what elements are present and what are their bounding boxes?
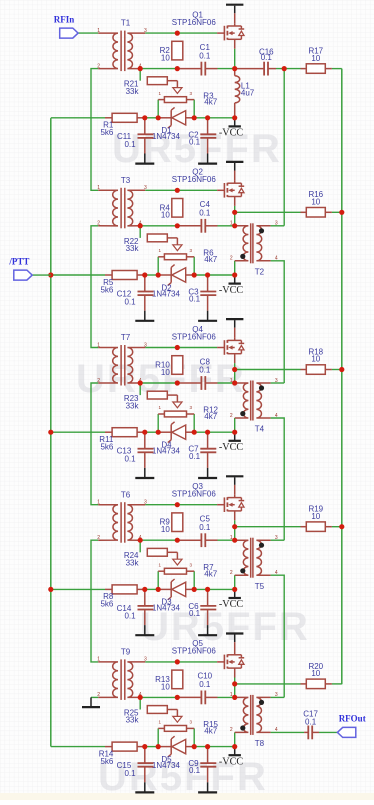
wire bbox=[332, 369, 342, 371]
label C1 0.1 bbox=[199, 43, 211, 60]
svg-text:10: 10 bbox=[311, 512, 320, 521]
svg-text:STP16NF06: STP16NF06 bbox=[172, 18, 217, 27]
label R1 5k6 bbox=[100, 121, 113, 138]
svg-text:3: 3 bbox=[144, 657, 147, 663]
pin numbers T5 bbox=[230, 535, 278, 576]
junction (-VCC node) bbox=[232, 115, 237, 120]
junction (C top) bbox=[205, 115, 210, 120]
junction (source node) bbox=[232, 681, 237, 686]
wire bbox=[140, 539, 177, 541]
resistor R22 bbox=[147, 234, 167, 242]
wire (R leads) bbox=[301, 526, 332, 528]
svg-text:4k7: 4k7 bbox=[204, 727, 217, 736]
svg-text:5k6: 5k6 bbox=[100, 285, 113, 294]
transformer T5 bbox=[235, 538, 271, 578]
svg-text:3: 3 bbox=[275, 378, 278, 384]
svg-text:0.1: 0.1 bbox=[305, 718, 317, 727]
svg-text:10: 10 bbox=[161, 54, 170, 63]
svg-text:3: 3 bbox=[144, 28, 147, 34]
label Q2 STP16NF06 bbox=[172, 168, 217, 185]
wire (resistor leads) bbox=[105, 588, 145, 590]
svg-text:-VCC: -VCC bbox=[219, 599, 244, 610]
wire bbox=[145, 504, 217, 506]
capacitor C14 bbox=[138, 606, 154, 610]
wire bbox=[139, 383, 141, 395]
wire (R leads) bbox=[301, 211, 332, 213]
resistor R4 bbox=[172, 199, 183, 218]
wire bbox=[194, 431, 235, 433]
pin numbers R12 bbox=[159, 405, 193, 410]
wire (resistor leads) bbox=[105, 431, 145, 433]
svg-text:0.1: 0.1 bbox=[199, 209, 211, 218]
wire bbox=[145, 588, 158, 590]
svg-text:4u7: 4u7 bbox=[241, 88, 255, 97]
resistor R23 bbox=[147, 391, 167, 399]
junction (zener right) bbox=[192, 587, 197, 592]
wire (cap leads) bbox=[145, 589, 208, 606]
wire bbox=[145, 431, 158, 433]
label R16 10 bbox=[308, 190, 323, 206]
polarity dots T4 bbox=[240, 385, 264, 416]
label T9 bbox=[121, 648, 131, 657]
wire bbox=[140, 68, 177, 70]
wire bbox=[234, 363, 236, 369]
wire (drain lead) bbox=[234, 485, 236, 495]
wire (R leads) bbox=[301, 683, 332, 685]
wire bbox=[235, 683, 301, 685]
pin numbers T3 bbox=[97, 185, 147, 227]
capacitor C8 bbox=[201, 376, 205, 390]
wire (L1 leads) bbox=[234, 69, 236, 118]
junction (C16/T2 feed) bbox=[282, 66, 287, 71]
junction (C top) bbox=[142, 744, 147, 749]
ground (T9 pin 2) bbox=[82, 697, 100, 707]
wire bbox=[193, 257, 195, 275]
junction (zener left) bbox=[156, 430, 161, 435]
transistor Q4 bbox=[217, 338, 244, 364]
label RFOut bbox=[339, 714, 366, 724]
svg-text:4k7: 4k7 bbox=[204, 255, 217, 264]
ground bbox=[135, 138, 154, 164]
wire (C lead) bbox=[177, 696, 217, 698]
label T6 bbox=[121, 490, 131, 499]
wire bbox=[139, 69, 141, 81]
svg-text:STP16NF06: STP16NF06 bbox=[172, 175, 217, 184]
wire bbox=[51, 746, 105, 748]
wire bbox=[157, 257, 159, 275]
junction (PTT rail) bbox=[48, 430, 53, 435]
resistor R8 bbox=[112, 585, 137, 594]
ground bbox=[198, 295, 217, 321]
svg-text:STP16NF06: STP16NF06 bbox=[172, 332, 217, 341]
wire bbox=[234, 575, 236, 589]
svg-text:4: 4 bbox=[275, 256, 278, 262]
junction (R bottom) bbox=[175, 695, 180, 700]
wire bbox=[332, 68, 342, 70]
label RFIn bbox=[54, 14, 75, 24]
junction (C top) bbox=[142, 272, 147, 277]
label R15 4k7 bbox=[203, 720, 218, 735]
resistor R1 bbox=[112, 113, 137, 122]
label D5 1N4734 bbox=[152, 755, 181, 770]
resistor R16 bbox=[306, 208, 325, 218]
wire bbox=[271, 539, 285, 541]
junction (-VCC node) bbox=[232, 587, 237, 592]
wire bbox=[193, 100, 195, 118]
wire bbox=[157, 100, 159, 118]
junction (source node) bbox=[232, 524, 237, 529]
resistor R11 bbox=[112, 428, 137, 437]
label T5 bbox=[255, 582, 265, 591]
junction (C top) bbox=[205, 744, 210, 749]
wire (C lead) bbox=[177, 68, 217, 70]
wire bbox=[157, 728, 159, 746]
junction (zener left) bbox=[156, 115, 161, 120]
resistor R25 bbox=[147, 706, 167, 714]
wire bbox=[271, 418, 285, 540]
svg-text:10: 10 bbox=[311, 54, 320, 63]
svg-text:0.1: 0.1 bbox=[189, 295, 201, 304]
svg-text:1: 1 bbox=[97, 500, 100, 506]
transformer T9 bbox=[98, 659, 145, 700]
label T1 bbox=[121, 19, 131, 28]
wire bbox=[78, 32, 98, 34]
label T3 bbox=[121, 176, 131, 185]
wire (R33 lead) bbox=[167, 709, 177, 711]
transformer T2 bbox=[235, 223, 271, 263]
svg-text:2: 2 bbox=[230, 570, 233, 576]
svg-text:0.1: 0.1 bbox=[199, 680, 211, 689]
svg-text:5k6: 5k6 bbox=[100, 600, 113, 609]
ground bbox=[135, 452, 154, 478]
label R21 33k bbox=[124, 80, 140, 96]
label C13 0.1 bbox=[117, 447, 136, 464]
pin numbers T4 bbox=[230, 378, 278, 419]
label R9 10 bbox=[160, 518, 171, 534]
label C11 0.1 bbox=[117, 132, 136, 149]
wire bbox=[218, 696, 235, 698]
label R6 4k7 bbox=[203, 249, 217, 264]
wire bbox=[139, 540, 141, 552]
resistor R2 bbox=[172, 41, 183, 60]
wire bbox=[145, 661, 217, 663]
svg-text:3: 3 bbox=[144, 342, 147, 348]
resistor R17 bbox=[306, 64, 325, 74]
svg-text:RFIn: RFIn bbox=[54, 14, 75, 24]
svg-text:T3: T3 bbox=[121, 176, 131, 185]
zener diode D5 bbox=[158, 736, 194, 757]
junction (zener right) bbox=[192, 430, 197, 435]
junction (zener left) bbox=[156, 272, 161, 277]
label T2 bbox=[255, 267, 265, 276]
resistor R18 bbox=[306, 365, 325, 375]
wire bbox=[234, 520, 236, 526]
svg-text:T7: T7 bbox=[121, 333, 131, 342]
svg-text:0.1: 0.1 bbox=[199, 51, 211, 60]
wire bbox=[91, 540, 98, 662]
wire bbox=[140, 382, 177, 384]
transformer T1 bbox=[98, 31, 145, 72]
wire (C lead) bbox=[177, 539, 217, 541]
label R8 5k6 bbox=[100, 592, 113, 609]
label R17 10 bbox=[308, 47, 323, 63]
label R5 5k6 bbox=[100, 278, 113, 295]
label C12 0.1 bbox=[117, 289, 136, 306]
svg-text:0.1: 0.1 bbox=[189, 137, 201, 146]
junction (bus) bbox=[339, 210, 344, 215]
svg-text:0.1: 0.1 bbox=[124, 140, 136, 149]
junction (node) bbox=[232, 223, 237, 228]
svg-text:1: 1 bbox=[97, 342, 100, 348]
wire (C lead) bbox=[177, 382, 217, 384]
wire bbox=[145, 117, 158, 119]
wire bbox=[271, 382, 285, 384]
svg-text:33k: 33k bbox=[126, 559, 140, 568]
label R12 4k7 bbox=[203, 406, 218, 421]
label C15 0.1 bbox=[117, 761, 136, 778]
label D3 1N4734 bbox=[152, 598, 181, 613]
wire (cap leads) bbox=[145, 118, 208, 135]
wire bbox=[234, 212, 236, 226]
svg-text:1N4734: 1N4734 bbox=[152, 289, 181, 298]
svg-text:4k7: 4k7 bbox=[204, 412, 217, 421]
junction (node) bbox=[232, 66, 237, 71]
trimmer R7 bbox=[158, 552, 194, 574]
wire bbox=[271, 575, 285, 697]
svg-text:-VCC: -VCC bbox=[219, 442, 244, 453]
capacitor C10 bbox=[201, 691, 205, 705]
resistor R5 bbox=[112, 271, 137, 280]
wire bbox=[51, 431, 105, 433]
resistor R21 bbox=[147, 77, 167, 85]
svg-text:4k7: 4k7 bbox=[204, 569, 217, 578]
trimmer R15 bbox=[158, 710, 194, 732]
svg-text:2: 2 bbox=[230, 727, 233, 733]
wire bbox=[145, 189, 217, 191]
junction (C top) bbox=[205, 430, 210, 435]
junction (T pin4) bbox=[138, 223, 143, 228]
wire bbox=[51, 274, 105, 276]
wire bbox=[234, 206, 236, 212]
wire bbox=[276, 68, 301, 70]
capacitor C5 bbox=[201, 533, 205, 547]
junction (zener right) bbox=[192, 115, 197, 120]
wire bbox=[234, 732, 236, 746]
wire bbox=[145, 746, 158, 748]
junction (gate line / R tap) bbox=[175, 345, 180, 350]
junction (-VCC node) bbox=[232, 744, 237, 749]
capacitor C12 bbox=[138, 292, 154, 296]
label Q5 STP16NF06 bbox=[172, 639, 217, 656]
junction (-VCC node) bbox=[232, 430, 237, 435]
capacitor C2 bbox=[200, 134, 216, 138]
label -VCC bbox=[219, 599, 244, 610]
wire bbox=[51, 588, 105, 590]
junction (bus) bbox=[339, 367, 344, 372]
wire bbox=[91, 69, 98, 191]
svg-text:33k: 33k bbox=[126, 244, 140, 253]
label C10 0.1 bbox=[197, 672, 212, 689]
wire bbox=[139, 226, 141, 238]
wire (drain lead) bbox=[234, 328, 236, 338]
svg-text:5k6: 5k6 bbox=[100, 128, 113, 137]
capacitor C15 bbox=[138, 763, 154, 767]
wire (cap leads) bbox=[145, 432, 208, 449]
wire bbox=[91, 383, 98, 505]
wire bbox=[235, 211, 301, 213]
capacitor C1 bbox=[201, 62, 205, 76]
svg-text:-VCC: -VCC bbox=[219, 756, 244, 767]
watermark bbox=[76, 127, 310, 799]
junction (bus) bbox=[339, 524, 344, 529]
svg-text:2: 2 bbox=[97, 535, 100, 541]
wire bbox=[194, 588, 235, 590]
transformer T4 bbox=[235, 381, 271, 421]
label C8 0.1 bbox=[199, 357, 211, 374]
wire bbox=[218, 225, 235, 227]
wire bbox=[283, 69, 285, 226]
wire bbox=[51, 117, 105, 119]
wire bbox=[145, 32, 217, 34]
svg-text:T1: T1 bbox=[121, 19, 131, 28]
label C14 0.1 bbox=[117, 604, 136, 621]
junction (zener left) bbox=[156, 744, 161, 749]
wire bbox=[218, 382, 235, 384]
label R7 4k7 bbox=[203, 563, 217, 578]
label T7 bbox=[121, 333, 131, 342]
pin numbers T8 bbox=[230, 692, 278, 733]
label C9 0.1 bbox=[188, 759, 200, 775]
label R20 10 bbox=[308, 662, 323, 678]
polarity dots T8 bbox=[240, 700, 264, 731]
label T8 bbox=[255, 739, 265, 748]
svg-text:0.1: 0.1 bbox=[199, 366, 211, 375]
wire bbox=[157, 414, 159, 432]
zener diode D4 bbox=[158, 422, 194, 443]
pin numbers R3 bbox=[159, 91, 193, 96]
junction (T pin4) bbox=[138, 66, 143, 71]
wire bbox=[332, 683, 342, 685]
svg-text:1: 1 bbox=[97, 657, 100, 663]
junction (gate line / R tap) bbox=[175, 659, 180, 664]
label C5 0.1 bbox=[199, 515, 211, 532]
label -VCC bbox=[219, 285, 244, 296]
wire (drain lead) bbox=[234, 13, 236, 23]
svg-text:4: 4 bbox=[275, 727, 278, 733]
label -VCC bbox=[219, 756, 244, 767]
trimmer R3 bbox=[158, 81, 194, 103]
ground bbox=[198, 452, 217, 478]
label C7 0.1 bbox=[188, 445, 200, 461]
label D2 1N4734 bbox=[152, 283, 181, 298]
wire bbox=[271, 261, 285, 383]
svg-text:5k6: 5k6 bbox=[100, 443, 113, 452]
svg-text:3: 3 bbox=[144, 185, 147, 191]
svg-text:1N4734: 1N4734 bbox=[152, 132, 181, 141]
capacitor C9 bbox=[200, 763, 216, 767]
junction (C top) bbox=[205, 272, 210, 277]
svg-text:T4: T4 bbox=[255, 425, 265, 434]
label R13 10 bbox=[155, 675, 170, 691]
wire bbox=[234, 418, 236, 432]
supply bar (drain rail) bbox=[226, 5, 243, 14]
wire (resistor leads) bbox=[105, 746, 145, 748]
trimmer R12 bbox=[158, 395, 194, 417]
wire (drain lead) bbox=[234, 642, 236, 652]
junction (source node) bbox=[232, 210, 237, 215]
supply -VCC symbol bbox=[229, 275, 241, 284]
pin numbers T2 bbox=[230, 221, 278, 262]
supply bar (drain rail) bbox=[226, 476, 243, 485]
wire (R33 lead) bbox=[167, 551, 177, 553]
capacitor C13 bbox=[138, 449, 154, 453]
wire (R33 lead) bbox=[167, 394, 177, 396]
svg-text:10: 10 bbox=[311, 355, 320, 364]
zener diode D2 bbox=[158, 265, 194, 286]
wire (drain lead) bbox=[234, 171, 236, 181]
junction (C top) bbox=[205, 587, 210, 592]
svg-text:10: 10 bbox=[311, 198, 320, 207]
capacitor C16 bbox=[264, 62, 268, 76]
wire bbox=[234, 370, 236, 384]
label -VCC bbox=[219, 442, 244, 453]
label D1 1N4734 bbox=[152, 126, 181, 141]
supply -VCC symbol bbox=[229, 432, 241, 441]
label /PTT bbox=[8, 257, 29, 267]
junction (gate line / R tap) bbox=[175, 30, 180, 35]
junction (gate line / R tap) bbox=[175, 502, 180, 507]
label R25 33k bbox=[124, 708, 140, 724]
svg-text:1N4734: 1N4734 bbox=[152, 761, 181, 770]
resistor R19 bbox=[306, 522, 325, 532]
svg-text:1: 1 bbox=[97, 185, 100, 191]
wire bbox=[234, 527, 236, 541]
svg-text:1N4734: 1N4734 bbox=[152, 447, 181, 456]
wire bbox=[234, 261, 236, 275]
svg-text:0.1: 0.1 bbox=[124, 612, 136, 621]
junction (zener right) bbox=[192, 272, 197, 277]
pin numbers R15 bbox=[159, 720, 193, 725]
svg-text:0.1: 0.1 bbox=[189, 452, 201, 461]
label R10 10 bbox=[155, 361, 170, 377]
svg-text:T5: T5 bbox=[255, 582, 265, 591]
svg-text:0.1: 0.1 bbox=[189, 766, 201, 775]
svg-text:10: 10 bbox=[161, 368, 170, 377]
ground bbox=[135, 767, 154, 793]
label C16 0.1 bbox=[259, 47, 274, 61]
wire bbox=[157, 571, 159, 589]
transistor Q1 bbox=[217, 23, 244, 49]
junction (-VCC node) bbox=[232, 272, 237, 277]
svg-text:10: 10 bbox=[161, 682, 170, 691]
wire bbox=[235, 526, 301, 528]
svg-text:0.1: 0.1 bbox=[124, 297, 136, 306]
wire bbox=[145, 274, 158, 276]
label -VCC bbox=[219, 128, 244, 139]
pin numbers T9 bbox=[97, 657, 147, 699]
svg-text:T6: T6 bbox=[121, 490, 131, 499]
svg-text:4k7: 4k7 bbox=[204, 98, 217, 107]
svg-text:/PTT: /PTT bbox=[8, 257, 29, 267]
wire bbox=[194, 274, 235, 276]
inductor L1 bbox=[235, 76, 240, 103]
wire (R33 lead) bbox=[167, 80, 177, 82]
wire bbox=[271, 731, 305, 733]
wire bbox=[234, 678, 236, 684]
wire bbox=[319, 731, 337, 733]
ground bbox=[198, 767, 217, 793]
svg-text:0.1: 0.1 bbox=[261, 53, 273, 62]
